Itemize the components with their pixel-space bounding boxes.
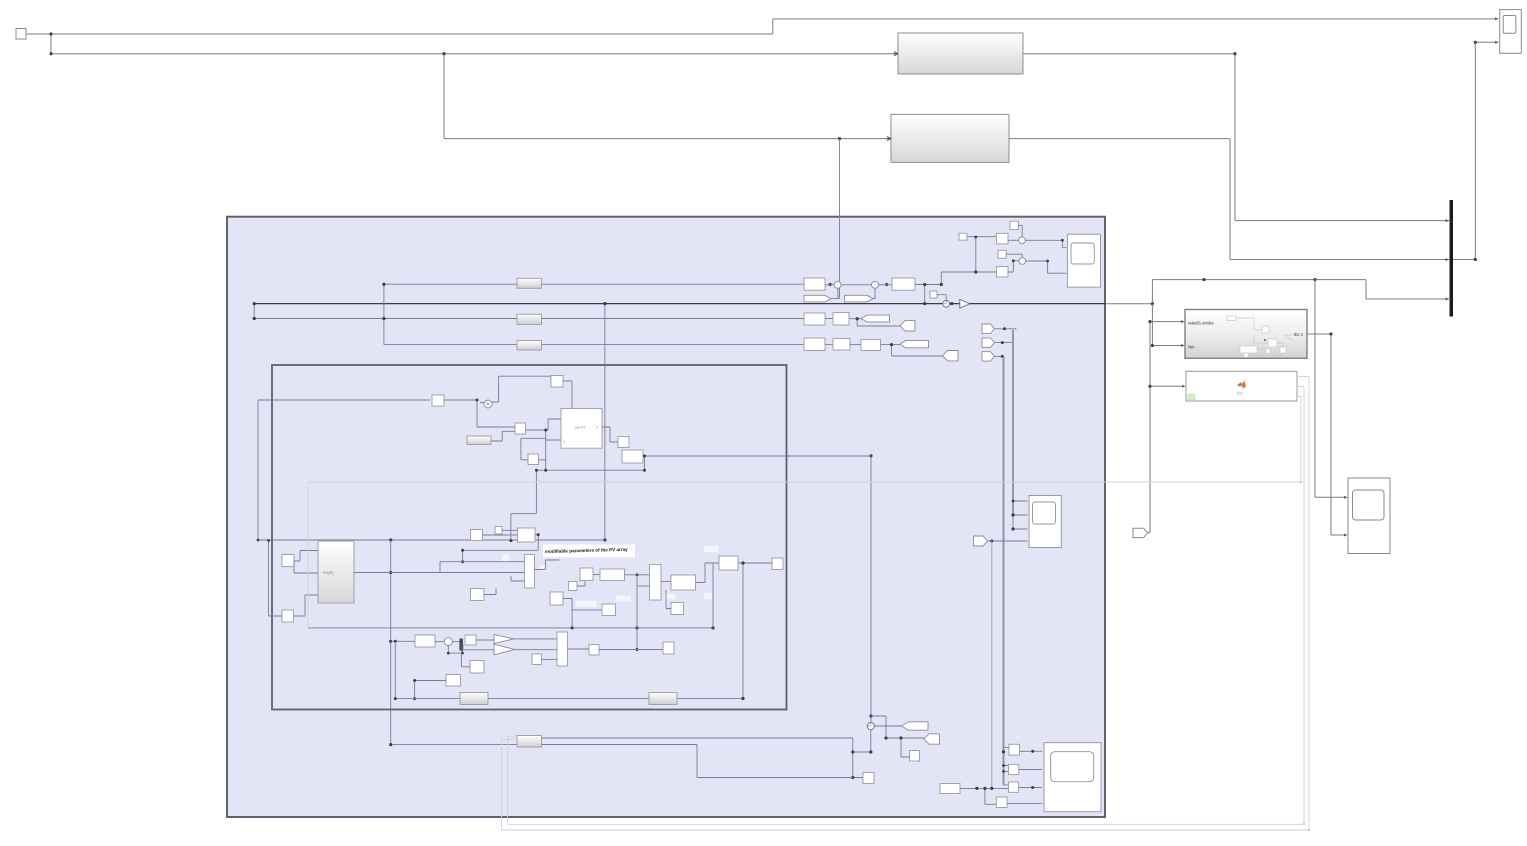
- node N3 out dots: [537, 533, 540, 536]
- tag FromT3: [982, 352, 995, 361]
- scope Scope3: [1348, 478, 1390, 554]
- wire P2 to minimux: [452, 641, 459, 643]
- wire L5 in: [461, 651, 470, 667]
- wire W1 (row1): [384, 283, 804, 285]
- node P2 loop dots: [447, 652, 450, 655]
- node tag wire junctions: [1148, 320, 1151, 323]
- block B6: [528, 454, 539, 465]
- block B8: [622, 450, 643, 463]
- wire N3 out loop to tallThin1: [463, 535, 539, 562]
- block sq m6: [602, 604, 616, 616]
- block B4: [515, 423, 526, 434]
- node arrow dots into scope: [1031, 750, 1034, 753]
- wire bus A stubs to squares: [1004, 747, 1010, 785]
- wire R1 in: [391, 640, 415, 642]
- wire L3 to L4: [599, 649, 663, 651]
- gain block W4b: [517, 341, 542, 351]
- wire mux output to scope: [1453, 42, 1498, 259]
- subsystem block B2 (second): [891, 114, 1009, 162]
- wire T3 to bus: [995, 355, 1004, 357]
- wire vertical branch x384: [383, 284, 385, 344]
- node x871 branch: [869, 454, 872, 457]
- pin arrowheads at block inputs: [1181, 17, 1498, 536]
- node bus A stub dots: [1002, 750, 1005, 753]
- block U1a: [804, 278, 825, 290]
- wire From4 to scope in4: [988, 540, 1028, 542]
- block sq m8: [671, 603, 684, 615]
- block sq c1: [1009, 744, 1020, 755]
- wire squares to big scope: [1007, 751, 1042, 803]
- icon MATLAB logo: [1237, 380, 1246, 388]
- svg-text:Fcn: Fcn: [1237, 392, 1243, 396]
- wire B2 down to B3: [563, 381, 572, 409]
- node R1 in: [394, 640, 397, 643]
- node U4c out: [890, 343, 893, 346]
- tag GotoC (arrow left thin): [861, 315, 890, 322]
- wire bus B to small scope stubs: [1013, 501, 1028, 529]
- scope Scope4 (small mid): [1029, 496, 1061, 548]
- block B3 MPPT: [561, 409, 602, 449]
- wire tagA to sum1 bottom and long vertical x840: [831, 139, 840, 299]
- wire tri1 out to tallmux: [514, 638, 557, 640]
- tag GotoB (arrow right): [845, 295, 874, 302]
- wire m1 stub: [484, 588, 496, 595]
- wire PV out to x390: [354, 572, 391, 574]
- wire long vertical x390: [391, 540, 517, 745]
- block sq L2: [532, 654, 542, 665]
- node S1 in2: [974, 236, 977, 239]
- wire tagB to sum2 bottom: [867, 288, 876, 298]
- wire c2 to scope in2: [1026, 261, 1067, 273]
- gain block G3 (bottom mid): [649, 693, 677, 705]
- node junction at x840 on B2 input wire: [838, 137, 841, 140]
- wire B4 to B3: [526, 419, 562, 470]
- node y563: [741, 561, 744, 564]
- sum circle bottom: [867, 722, 874, 729]
- node dot after sum2: [885, 283, 888, 286]
- sum circle S1b: [872, 281, 879, 288]
- block U3a: [804, 313, 825, 325]
- block B7: [618, 437, 629, 448]
- wire tallThin1 inputs: [391, 562, 525, 581]
- gain triangle G1: [960, 299, 970, 308]
- wire U3b out: [849, 319, 900, 326]
- tag From4 (pentagon right): [974, 536, 988, 546]
- wire m2 out: [577, 576, 585, 586]
- wire m7 out: [696, 563, 720, 583]
- block rect m9 (top right): [719, 556, 738, 570]
- wire S3 to c2: [1008, 261, 1019, 272]
- block B2: [551, 376, 563, 388]
- node subsystem out: [1329, 332, 1332, 335]
- wire sqB to PV in3: [269, 541, 319, 617]
- block B1: [432, 395, 444, 406]
- block sq m2: [569, 582, 578, 591]
- wire W3 (row3): [254, 318, 804, 320]
- wire x395 vertical: [394, 641, 396, 698]
- block U4c: [861, 340, 881, 351]
- node at subsystem in2 branch: [1151, 344, 1154, 347]
- block sq L3: [589, 645, 599, 656]
- wire vertical feed to subsystem input2: [1152, 304, 1183, 346]
- block S3sq on y272 wire: [997, 267, 1009, 277]
- node corner B1 out: [1233, 52, 1236, 55]
- node bottom loop dots: [851, 750, 854, 753]
- node chain dots: [394, 697, 397, 700]
- wire m8 in: [666, 590, 671, 609]
- node x886/x901 dots: [884, 736, 887, 739]
- block U4b: [833, 339, 850, 351]
- wire W2 left drop: [253, 304, 255, 319]
- node y540 junctions: [389, 538, 392, 541]
- area box converter (inner): [272, 365, 787, 710]
- node junction In1 branch: [49, 32, 52, 35]
- block sq m10: [772, 558, 783, 570]
- node U1b out junctions: [923, 283, 926, 286]
- node left col: [267, 539, 270, 542]
- tag From3 (pentagon): [1133, 528, 1148, 537]
- annotation text strip: [543, 545, 635, 558]
- tag FromT2: [982, 338, 995, 347]
- wire Wa from lavender box to mux input3: [1105, 280, 1449, 304]
- scope Scope1 (top right): [1500, 10, 1522, 54]
- wire U4c out: [881, 345, 943, 356]
- circle c2: [1019, 258, 1026, 265]
- input port In1: [16, 29, 26, 40]
- sum circle P2: [444, 638, 452, 646]
- node y628 dots: [571, 626, 574, 629]
- node B1 out: [476, 399, 479, 402]
- wire B1 to product: [444, 400, 515, 427]
- block sqFeed (above sum): [930, 291, 937, 298]
- gain block W3b: [517, 314, 542, 324]
- wire sqA to PV in: [294, 551, 318, 574]
- pin arrow B2 input: [886, 137, 891, 141]
- wire L2 to tallmux: [542, 659, 558, 661]
- node scope1 in2 corner: [1474, 41, 1477, 44]
- wire x713 vertical: [712, 563, 714, 628]
- wire from From-tag up to subsystem in1 and MATLAB block: [1148, 322, 1184, 533]
- gate triangle tri1: [494, 634, 514, 643]
- wire tall2 out: [661, 581, 671, 583]
- wire tallThin1 out: [535, 560, 560, 570]
- wire N2 to N3: [502, 529, 518, 531]
- wire In1 to top scope: [26, 19, 1498, 34]
- block U1b: [892, 278, 915, 290]
- circle c1: [1019, 237, 1026, 244]
- node L6 in: [413, 679, 416, 682]
- gate triangle tri2: [494, 644, 515, 655]
- wire m5 out to m6: [563, 599, 602, 628]
- wire tall2 in2: [637, 585, 650, 587]
- wire W2 (long dark row): [254, 303, 1105, 305]
- wire N1 to N3: [483, 534, 518, 536]
- wire mux-small lower out: [542, 745, 853, 778]
- node x605 top/bottom: [603, 302, 606, 305]
- tag FromP (pentagon left): [924, 734, 940, 744]
- block sq t1: [1010, 221, 1018, 229]
- wire B1 output to mux: [1023, 54, 1449, 221]
- wire U4b-U4c: [850, 344, 861, 346]
- tag GotoA (arrow right): [804, 295, 831, 302]
- node T dots: [1003, 327, 1006, 330]
- area box PV system (lavender): [227, 217, 1105, 817]
- node From4 branch: [990, 540, 993, 543]
- block U3b: [833, 313, 849, 326]
- node junction at x444: [442, 52, 445, 55]
- wire m3 to m4: [593, 574, 600, 576]
- gain block B5: [467, 436, 491, 445]
- scope Scope5 (big bottom): [1044, 743, 1101, 812]
- block PV array (gradient tall): [318, 541, 354, 603]
- block S1sq: [997, 233, 1009, 244]
- wire R1 to P2: [435, 641, 444, 643]
- wire branch to block B2: [444, 54, 889, 139]
- wire x871 long vertical from inner box out: [870, 456, 872, 723]
- wire T2 to bus: [995, 342, 1012, 344]
- svg-text:rated/1-stroke: rated/1-stroke: [1188, 321, 1215, 326]
- wire B2 output to mux: [1009, 139, 1449, 260]
- block U4a: [804, 338, 825, 351]
- wire t1 to c1: [1018, 225, 1022, 237]
- node c2 in: [1012, 259, 1015, 262]
- block rect m4: [600, 569, 625, 581]
- block tallThin1: [525, 555, 535, 589]
- wire y563 bus: [738, 563, 772, 699]
- node branch dots x384: [382, 283, 385, 286]
- block sq L6: [446, 675, 461, 687]
- mux small (left, gradient): [517, 736, 542, 748]
- product circle P1: [484, 400, 492, 408]
- wire B6 stub: [521, 438, 546, 460]
- block sqB: [282, 610, 294, 622]
- wire L6 in: [415, 681, 446, 699]
- wire t3 to c2: [1006, 254, 1022, 258]
- block sq c4: [996, 797, 1007, 808]
- wire tallmux out: [568, 648, 590, 650]
- svg-text:MPPT: MPPT: [575, 425, 587, 430]
- tag FromT1: [982, 324, 995, 334]
- block sq L4: [663, 642, 674, 654]
- block sq t3: [998, 250, 1006, 258]
- wire vertical x605 from W2 down: [604, 304, 606, 540]
- block sq b1: [910, 751, 920, 762]
- wire B8 feedback loop y470: [511, 456, 645, 541]
- wire y540 to left loop: [258, 400, 605, 540]
- wire y628 horizontal: [308, 627, 713, 629]
- block N1: [471, 530, 483, 541]
- node x637 dots: [636, 573, 639, 576]
- block tall2: [650, 565, 662, 601]
- block rect m7: [671, 575, 696, 590]
- bus vertical B x1013 (thick): [1012, 330, 1014, 515]
- wire P2 bottom loop: [448, 646, 462, 654]
- wire subsystem output: [1307, 334, 1346, 535]
- wire MATLAB out2 (light feedback): [508, 387, 1304, 825]
- sum circle S1a: [834, 281, 841, 288]
- svg-text:Ibc 1: Ibc 1: [1294, 332, 1304, 337]
- wire t2 to S1: [967, 236, 997, 238]
- wire circle out to goto flag: [874, 725, 901, 727]
- wire inner out y456 to x871: [643, 455, 871, 457]
- node scope stub dots: [1012, 500, 1015, 503]
- wire between sums: [825, 284, 872, 286]
- wire MATLAB out3 (faint long loop): [308, 397, 1301, 628]
- block sqA: [282, 555, 294, 567]
- mux M1 (black bar): [1450, 200, 1454, 317]
- node dot before sum1: [829, 283, 832, 286]
- block sq m1: [471, 589, 485, 601]
- block tallmux: [557, 632, 568, 666]
- node c1 out corner: [1061, 239, 1064, 242]
- wire tri2 out to tallmux: [515, 649, 557, 651]
- wire light vertical x992 down: [991, 541, 993, 788]
- block sq m5: [550, 592, 563, 605]
- bus vertical A x1003.5 (thick): [1003, 356, 1005, 785]
- block sq c2: [1009, 764, 1019, 774]
- node x390 dots: [389, 571, 392, 574]
- wire bottom chain y698.6: [395, 698, 743, 700]
- wire source to sq3/sq4: [960, 788, 1009, 804]
- block R1: [415, 635, 435, 647]
- wire U4a-U4b: [825, 344, 833, 346]
- svg-text:Nm: Nm: [1188, 345, 1195, 350]
- scope Scope2 (in-box top right): [1067, 234, 1100, 287]
- block sq L5: [470, 661, 484, 674]
- tag GotoD (arrow left thin): [900, 341, 929, 348]
- node source wire dots: [975, 787, 978, 790]
- node Wa junctions: [1151, 302, 1154, 305]
- wire MATLAB out1 (light feedback): [308, 377, 1309, 831]
- wire L1 to tri1: [476, 639, 494, 641]
- block sq b2: [863, 773, 874, 784]
- minimux dark bar: [459, 639, 463, 651]
- gain block W1b: [517, 278, 542, 288]
- badge green corner: [1188, 395, 1195, 400]
- wire m4 out to tall2: [625, 574, 650, 576]
- wire sum2 to U1b: [879, 284, 893, 286]
- block N3: [518, 528, 536, 542]
- tag FromC (pentagon left): [900, 321, 915, 331]
- wire vert into S1 lower input: [975, 237, 977, 272]
- tag GotoFlag (long arrow left): [902, 722, 929, 730]
- wire branch to x886: [871, 716, 924, 757]
- block sq L1: [465, 635, 476, 645]
- wire tri2 in: [463, 644, 494, 650]
- block sq c3: [1009, 782, 1019, 792]
- wire sqFeed to sum top: [937, 295, 946, 301]
- wire U3a-U3b: [825, 318, 833, 320]
- subsystem Machine (gradient with preview): [1185, 310, 1307, 359]
- wire mux3 path vertical to scope: [1315, 280, 1346, 498]
- wire S1 to c1: [1008, 239, 1019, 241]
- gain block G2 (bottom left): [460, 693, 488, 705]
- W2 sum circle: [943, 300, 950, 307]
- node c2 out corner: [1046, 260, 1049, 263]
- node mux out: [1474, 258, 1477, 261]
- block N2: [495, 527, 502, 535]
- node loop dots: [643, 455, 646, 458]
- node after W2 sum: [950, 302, 953, 305]
- block left source: [940, 784, 960, 794]
- annotation label patches: [502, 555, 509, 562]
- pin arrow B1 input: [893, 52, 898, 56]
- wire c1 to scope in1: [1025, 240, 1066, 247]
- MATLAB function block: [1186, 371, 1297, 401]
- node U3b out: [856, 317, 859, 320]
- wire In1 branch down: [51, 34, 896, 54]
- tag FromE (pentagon left): [943, 351, 959, 361]
- subsystem block B1 (top): [898, 33, 1023, 74]
- svg-text:PV(P): PV(P): [323, 570, 334, 575]
- wire T1 to bus right: [995, 329, 1017, 330]
- wire B5 to B4: [491, 431, 515, 441]
- block sq m3: [580, 568, 593, 581]
- node light net corners: [1300, 481, 1302, 483]
- wire circle bottom loop: [542, 730, 871, 778]
- block sq t2: [959, 233, 967, 240]
- wire U1b out: [915, 272, 997, 304]
- wire W4 (row4): [384, 344, 804, 346]
- wire x637 vertical: [636, 575, 638, 650]
- wire product up to B2: [492, 376, 551, 402]
- wire B3 out to B7: [602, 427, 618, 442]
